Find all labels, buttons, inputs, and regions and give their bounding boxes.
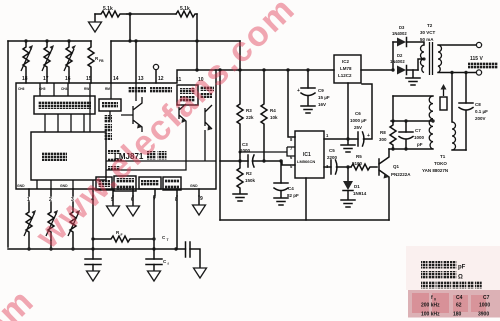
- wire pin8 drop: [176, 196, 186, 249]
- ground: [148, 271, 161, 281]
- label mod out pin13: [128, 87, 146, 93]
- svg-text:100 kHz: 100 kHz: [421, 312, 440, 318]
- wire junction drop from 5.1k node: [129, 14, 131, 41]
- note line 2: resistors in ohms: [421, 271, 428, 279]
- ground: [233, 194, 247, 201]
- svg-text:C8: C8: [475, 102, 481, 107]
- svg-text:C7: C7: [415, 128, 421, 133]
- resistor 5.1k (second): [176, 11, 197, 17]
- svg-text:R2: R2: [246, 171, 252, 176]
- label mod out pin12: [150, 87, 172, 93]
- svg-text:C9: C9: [318, 88, 324, 93]
- diode D3 1N4002: [393, 41, 397, 43]
- wire pin7 drop: [153, 196, 155, 259]
- wire pin stubs bottom: [29, 189, 199, 196]
- transistor Qa internal: [121, 97, 142, 132]
- node (junction on 5.1k chain): [128, 12, 131, 15]
- svg-text:C4: C4: [288, 186, 294, 191]
- wire: node row y41 right segment: [111, 40, 240, 42]
- wire center tap: [418, 59, 424, 70]
- terminal: [476, 70, 481, 75]
- svg-text:R4: R4: [270, 108, 276, 113]
- wire drop to +V rail: [239, 41, 241, 70]
- svg-text:IC2: IC2: [342, 59, 350, 64]
- svg-text:Ω: Ω: [458, 275, 463, 281]
- transformer T1 secondary: [451, 73, 453, 123]
- watermark: [0, 0, 303, 321]
- ground: [193, 205, 206, 215]
- encoder block: [31, 132, 106, 180]
- svg-text:LM566CN: LM566CN: [297, 159, 315, 164]
- svg-text:D3: D3: [399, 25, 405, 30]
- svg-text:GND: GND: [190, 184, 198, 188]
- svg-text:180: 180: [453, 312, 462, 318]
- svg-text:D2: D2: [397, 53, 403, 58]
- note line 1: capacitors in pF: [421, 261, 428, 269]
- svg-text:C7: C7: [483, 295, 490, 301]
- svg-text:D1: D1: [354, 184, 360, 189]
- svg-text:200V: 200V: [475, 116, 486, 121]
- svg-text:R3: R3: [246, 108, 252, 113]
- diode D2 1N4002: [397, 66, 406, 75]
- svg-text:300: 300: [379, 137, 387, 142]
- svg-text:1N914: 1N914: [353, 191, 367, 196]
- svg-text:LM78: LM78: [340, 66, 352, 71]
- wire AC top: [438, 44, 476, 46]
- svg-text:2200: 2200: [327, 155, 338, 160]
- svg-text:150k: 150k: [245, 178, 256, 183]
- node: left bus y41: [8, 40, 91, 42]
- T2 core: [430, 42, 433, 75]
- svg-text:1000 µF: 1000 µF: [350, 118, 367, 123]
- potentiometer (ch2 bottom): [48, 202, 54, 247]
- svg-text:Q1: Q1: [393, 164, 400, 169]
- potentiometer (ch2 top): [44, 41, 50, 83]
- resistor 5.1k (first): [95, 11, 127, 17]
- wire internal bus 2: [106, 140, 186, 170]
- ground: [194, 268, 207, 278]
- ground (pin 6): [132, 196, 134, 206]
- compare block: [139, 177, 161, 189]
- svg-text:RM: RM: [105, 87, 110, 91]
- capacitor CT: [186, 242, 191, 257]
- svg-text:RW: RW: [84, 87, 89, 91]
- svg-text:17: 17: [43, 76, 49, 82]
- svg-text:9: 9: [200, 196, 203, 202]
- svg-text:50 mA: 50 mA: [420, 37, 434, 42]
- svg-text:R8: R8: [380, 130, 386, 135]
- capacitor C4: [280, 161, 282, 183]
- svg-text:25V: 25V: [354, 125, 362, 130]
- table background (watermark logo block): [408, 290, 500, 318]
- svg-text:30 VCT: 30 VCT: [420, 30, 436, 35]
- wire IC2 bottom drop: [347, 83, 349, 144]
- svg-text:18: 18: [22, 76, 28, 82]
- svg-text:PN2222A: PN2222A: [391, 172, 411, 177]
- wire net B y152: [240, 147, 295, 156]
- capacitor C3: [247, 155, 249, 167]
- svg-text:FB: FB: [99, 59, 104, 63]
- svg-text:1N4002: 1N4002: [392, 31, 407, 36]
- wire internal bus 1: [106, 130, 216, 161]
- svg-text:IC1: IC1: [303, 152, 311, 158]
- transistor Qc internal: [179, 104, 186, 140]
- wire: left rail: [7, 41, 9, 247]
- resistor R4: [261, 70, 267, 161]
- svg-text:3900: 3900: [478, 312, 489, 318]
- potentiometer (ch1 top): [23, 41, 29, 83]
- svg-text:T2: T2: [427, 23, 433, 28]
- wire AC bottom: [438, 72, 476, 74]
- resistor R5: [351, 164, 377, 170]
- svg-text:5100: 5100: [352, 161, 363, 166]
- svg-text:5.1k: 5.1k: [103, 6, 113, 12]
- capacitor Cf: [146, 258, 162, 260]
- potentiometer (ch1 bottom): [26, 202, 32, 247]
- wire pin13 riser: [135, 41, 137, 83]
- capacitor C8: [465, 73, 467, 104]
- svg-text:+: +: [297, 88, 300, 94]
- encoder side labels: [108, 150, 120, 154]
- capacitor (pin4 bypass): [85, 258, 101, 260]
- svg-text:12: 12: [158, 76, 164, 82]
- T1 slug: [440, 97, 447, 110]
- label right of carrier block: [200, 86, 214, 91]
- svg-text:C3: C3: [242, 142, 248, 147]
- svg-text:115 V: 115 V: [470, 56, 483, 62]
- transistor Qb internal: [205, 105, 212, 129]
- svg-text:F: F: [121, 233, 123, 237]
- svg-text:82 pF: 82 pF: [287, 193, 299, 198]
- svg-text:TOKO: TOKO: [434, 161, 447, 166]
- svg-text:R5: R5: [356, 154, 362, 159]
- wire pin8 IC1 riser: [288, 70, 295, 137]
- wire net A y161: [220, 161, 295, 165]
- wire +V rail: [216, 69, 393, 71]
- wire logic to encoder: [45, 114, 84, 132]
- wire main left drop: [219, 70, 221, 220]
- T2 secondary winding: [438, 45, 442, 73]
- wire encoder to bottom pins: [37, 180, 93, 189]
- wire pins into logic block: [40, 83, 136, 101]
- wire: [127, 13, 176, 15]
- node: modulation output terminal: [153, 64, 158, 69]
- resistor R8: [390, 121, 396, 149]
- svg-text:pF: pF: [458, 265, 466, 271]
- resistor RFB: [88, 41, 94, 83]
- svg-text:15 µF: 15 µF: [318, 95, 330, 100]
- potentiometer (ch3 top): [66, 41, 72, 83]
- svg-text:16V: 16V: [318, 102, 326, 107]
- svg-text:GND: GND: [17, 184, 25, 188]
- wire down from 5.1k chain to IC supply notch: [196, 14, 198, 70]
- wire tank rail top: [391, 120, 433, 122]
- resistor R3: [237, 70, 243, 161]
- wire pin14 riser: [110, 41, 112, 83]
- op-amp U1 LMJ871 encoder IC outline: [16, 70, 216, 189]
- svg-text:GND: GND: [60, 184, 68, 188]
- svg-text:1000: 1000: [414, 135, 425, 140]
- svg-text:13: 13: [138, 76, 144, 82]
- diode D1 1N914: [347, 167, 349, 181]
- ground: [412, 70, 414, 77]
- svg-text:0.1 µF: 0.1 µF: [475, 109, 488, 114]
- resistor R2: [237, 161, 243, 193]
- op-amp IC1 LM566CN: [295, 131, 324, 178]
- filter label (vertical): [104, 115, 112, 123]
- transistor Q1 PN2222A: [378, 159, 380, 175]
- svg-text:1N4002: 1N4002: [390, 59, 405, 64]
- carrier modulator block: [114, 176, 136, 191]
- svg-text:C4: C4: [456, 295, 463, 301]
- svg-text:16: 16: [65, 76, 71, 82]
- capacitor C9: [307, 70, 309, 88]
- ground: [341, 200, 355, 207]
- carrier output block: [177, 85, 198, 105]
- svg-text:YAN 88027N: YAN 88027N: [422, 168, 448, 173]
- wire pin15 into encoder: [89, 83, 91, 132]
- svg-text:CH6: CH6: [18, 87, 25, 91]
- ground: [87, 271, 100, 281]
- svg-text:C5: C5: [329, 148, 335, 153]
- node rectifier output: [391, 68, 394, 71]
- logic block: [34, 96, 95, 114]
- terminal: [476, 42, 481, 47]
- wire tank top: [393, 95, 433, 97]
- wire mixer drop: [109, 111, 111, 120]
- svg-text:10k: 10k: [270, 115, 278, 120]
- mixer block: [99, 99, 121, 111]
- svg-text:C6: C6: [355, 111, 361, 116]
- capacitor C5: [324, 166, 331, 168]
- regulator block: [96, 177, 112, 190]
- wire pin4 drop: [92, 196, 94, 259]
- ground (pin 5): [112, 196, 114, 206]
- wire IC1 pin4 drop: [305, 178, 307, 220]
- capacitor C7: [405, 121, 407, 132]
- ground: [274, 198, 288, 205]
- svg-text:62: 62: [456, 303, 462, 309]
- resistor RF: [93, 236, 152, 242]
- svg-text:0: 0: [434, 298, 436, 302]
- divider block: [163, 177, 181, 190]
- wire bottom rail: [220, 219, 389, 221]
- svg-text:5.1k: 5.1k: [180, 6, 190, 12]
- T2 primary winding: [421, 45, 425, 73]
- svg-text:+: +: [367, 133, 370, 139]
- wire pin9: [198, 196, 200, 205]
- svg-text:T1: T1: [440, 154, 446, 159]
- svg-text:14: 14: [113, 76, 119, 82]
- potentiometer (ch3 bottom): [70, 202, 76, 247]
- transformer T1 primary: [429, 96, 433, 149]
- svg-text:22k: 22k: [246, 115, 254, 120]
- wire IC1 pin1 to C6: [324, 138, 358, 140]
- svg-text:L12C2: L12C2: [338, 73, 352, 78]
- ground: [301, 106, 315, 113]
- wire tank rail bottom: [389, 148, 433, 150]
- ground: [94, 14, 96, 22]
- svg-text:1000: 1000: [479, 303, 490, 309]
- note line 3: select caps per carrier frequency: [421, 281, 428, 289]
- svg-text:CH4: CH4: [61, 87, 68, 91]
- capacitor C6: [357, 132, 359, 146]
- regulator IC2 LM78L12: [334, 55, 361, 83]
- ground: [341, 145, 355, 152]
- wire bottom bus: [8, 248, 176, 250]
- svg-text:15: 15: [86, 76, 92, 82]
- svg-text:pF: pF: [417, 142, 423, 147]
- svg-text:200 kHz: 200 kHz: [421, 303, 440, 309]
